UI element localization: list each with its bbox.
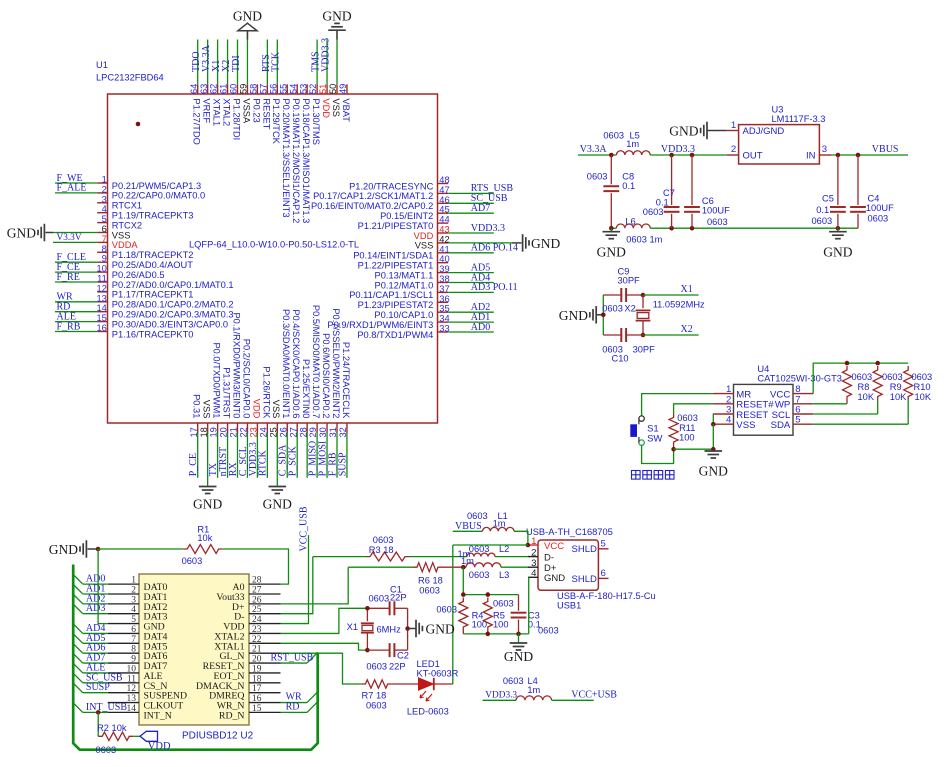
bus entry AD5 xyxy=(73,634,83,644)
resistor R1 xyxy=(183,545,223,554)
svg-text:P1.19/TRACEPKT3: P1.19/TRACEPKT3 xyxy=(112,211,194,221)
svg-text:0603: 0603 xyxy=(182,556,203,566)
svg-text:USB-A-F-180-H17.5-Cu: USB-A-F-180-H17.5-Cu xyxy=(557,591,656,601)
U2 pin 11 stub (CS_N) xyxy=(108,682,139,684)
ground GND at USB xyxy=(518,634,520,643)
node junction crystal GND tap xyxy=(405,626,410,631)
wire crystal X1 left rail xyxy=(366,608,368,621)
svg-text:30PF: 30PF xyxy=(618,275,641,285)
svg-text:V3.3A: V3.3A xyxy=(580,144,608,155)
wire net RD (U1 pin 14) xyxy=(55,311,97,313)
U1 pin 55 stub (P0.20/MAT1.3/SSEL1/EINT3) xyxy=(286,84,288,94)
svg-text:VDD3.3: VDD3.3 xyxy=(320,38,331,72)
U1 pin 27 stub (P0.4/SCK0/CAP0.1/AD0.6) xyxy=(296,423,298,433)
wire U2 XTAL2 pin 23 to crystal xyxy=(281,608,368,633)
svg-text:VSS: VSS xyxy=(271,400,281,419)
bus entry RST_USB xyxy=(307,652,318,663)
node junction C6 bottom xyxy=(690,226,695,231)
svg-text:40: 40 xyxy=(439,254,449,264)
svg-text:33: 33 xyxy=(439,324,449,334)
U2 pin 9 stub (DAT7) xyxy=(108,662,139,664)
wire net INT_USB (U2 pin 14) xyxy=(83,711,108,713)
svg-text:VSS: VSS xyxy=(112,230,131,240)
svg-text:RTCX2: RTCX2 xyxy=(112,220,142,230)
wire net AD5 (U2 pin 7) xyxy=(83,642,108,644)
svg-text:GND: GND xyxy=(597,245,626,260)
svg-text:0603: 0603 xyxy=(868,213,889,223)
svg-text:GND: GND xyxy=(7,226,36,241)
svg-text:VBUS: VBUS xyxy=(455,521,482,532)
ic U2 body PDIUSBD12 xyxy=(139,574,249,725)
resistor R8 xyxy=(843,366,852,401)
resistor R7 xyxy=(361,680,391,688)
svg-text:P0.11/CAP1.1/SCL1: P0.11/CAP1.1/SCL1 xyxy=(349,290,433,300)
USB1 pin 4 stub (GND) xyxy=(528,576,538,578)
U1 pin 6 stub (VSS) xyxy=(97,232,107,234)
wire U1 pin 32 xyxy=(346,433,348,478)
U4 pin 5 stub (SDA) xyxy=(793,423,813,425)
svg-text:P0.25/AD0.4/AOUT: P0.25/AD0.4/AOUT xyxy=(112,260,193,270)
svg-text:10K: 10K xyxy=(915,392,932,402)
wire net V3.3V (U1 pin 7 VDDA) xyxy=(53,241,97,243)
wire U1 pin 29 xyxy=(316,433,318,478)
U1 pin 2 stub (P0.22/CAP0.0/MAT0.0) xyxy=(97,192,107,194)
U2 pin 8 stub (DAT6) xyxy=(108,652,139,654)
node junction L3/R4 xyxy=(461,565,466,570)
svg-text:0603: 0603 xyxy=(602,304,623,314)
svg-text:59: 59 xyxy=(239,84,249,94)
svg-text:1: 1 xyxy=(131,576,136,586)
capacitor C1 xyxy=(389,601,391,615)
U2 pin 12 stub (SUSPEND) xyxy=(108,692,139,694)
wire R6 to L3 xyxy=(442,566,466,568)
svg-text:10: 10 xyxy=(127,664,137,674)
svg-text:P0.29/AD0.2/CAP0.3/MAT0.3: P0.29/AD0.2/CAP0.3/MAT0.3 xyxy=(112,310,234,320)
ground GND right of U3 xyxy=(837,228,839,231)
U1 pin 58 stub (P0.23) xyxy=(256,84,258,94)
U3 pin 1 stub xyxy=(727,130,739,132)
svg-text:SHLD: SHLD xyxy=(572,574,597,585)
svg-text:F_RE: F_RE xyxy=(57,272,80,283)
U1 pin 38 stub (P0.12/MAT1.0) xyxy=(438,282,449,284)
svg-text:TCK: TCK xyxy=(271,51,282,72)
node junction C5 bottom xyxy=(836,226,841,231)
wire net WR (U1 pin 13) xyxy=(55,301,97,303)
svg-text:0603: 0603 xyxy=(677,413,698,423)
svg-text:18: 18 xyxy=(252,674,262,684)
capacitor C8 xyxy=(610,155,612,184)
wire net RTS (U1 pin 57) xyxy=(266,40,268,85)
wire net RTS_USB (U1 pin 47) xyxy=(448,192,494,194)
svg-text:P0.8/TXD1/PWM4: P0.8/TXD1/PWM4 xyxy=(357,330,433,340)
node junction L6/GND xyxy=(609,226,614,231)
USB1 pin 5 stub (SHLD) xyxy=(598,548,608,550)
U1 pin 29 stub (P0.5/MISO0/MAT0.1/AD0.7) xyxy=(316,423,318,433)
svg-text:50: 50 xyxy=(328,84,338,94)
node junction R4 top xyxy=(461,592,466,597)
svg-text:R6 18: R6 18 xyxy=(418,576,443,586)
wire net F_RB (U1 pin 16) xyxy=(55,331,97,333)
svg-text:LED1: LED1 xyxy=(417,659,440,669)
U1 pin 46 stub (P0.16/EINT0/MAT0.2/CAP0.2) xyxy=(438,202,449,204)
U2 pin 17 stub (DMREQ) xyxy=(249,692,281,694)
svg-text:P0.5/MISO0/MAT0.1/AD0.7: P0.5/MISO0/MAT0.1/AD0.7 xyxy=(311,305,321,419)
wire U1 pin 28 xyxy=(306,433,308,478)
svg-text:7: 7 xyxy=(102,234,107,244)
bus entry AD3 xyxy=(73,604,83,614)
svg-text:AD6 PO.14: AD6 PO.14 xyxy=(471,243,518,254)
svg-text:6: 6 xyxy=(601,568,606,579)
wire U2 D- pin 25 to R3 line xyxy=(281,557,313,614)
U1 pin 53 stub (P0.18/CAP1.3/MISO1/MAT1.3) xyxy=(306,84,308,94)
U1 pin 50 stub (VSS) xyxy=(336,84,338,94)
svg-text:45: 45 xyxy=(439,205,449,215)
svg-text:KT-0603R: KT-0603R xyxy=(417,669,459,679)
wire net SUSP (U2 pin 12) xyxy=(83,692,108,694)
svg-text:0603: 0603 xyxy=(469,570,490,580)
U1 pin 17 stub (P0.31) xyxy=(197,423,199,433)
bus entry SC_USB xyxy=(73,673,83,683)
inductor L5 xyxy=(616,151,650,155)
wire L1 to USB VCC xyxy=(514,531,528,545)
U1 pin 47 stub (P0.17/CAP1.2/SCK1/MAT1.2) xyxy=(438,192,449,194)
inductor L2 xyxy=(467,553,495,557)
svg-text:OUT: OUT xyxy=(743,151,763,162)
wire U4 RESET to VSS xyxy=(712,414,714,424)
svg-text:AD0: AD0 xyxy=(471,322,490,333)
resistor R6 xyxy=(413,563,442,572)
U2 pin 6 stub (DAT4) xyxy=(108,632,139,634)
svg-text:SDA: SDA xyxy=(771,420,791,431)
svg-text:VSS: VSS xyxy=(202,400,212,419)
svg-text:RD: RD xyxy=(286,702,300,713)
svg-text:24: 24 xyxy=(252,615,262,625)
wire L3 node down to R4 rail xyxy=(462,567,464,594)
ground GND near R1 xyxy=(79,546,81,552)
svg-text:P0.18/CAP1.3/MISO1/MAT1.3: P0.18/CAP1.3/MISO1/MAT1.3 xyxy=(301,98,311,223)
svg-text:GND: GND xyxy=(544,573,565,584)
U1 pin 23 stub (VDD) xyxy=(256,423,258,433)
svg-text:P_SCK: P_SCK xyxy=(288,446,299,477)
USB1 pin 3 stub (D+) xyxy=(528,566,538,568)
node junction X1 xyxy=(641,293,646,298)
svg-text:26: 26 xyxy=(252,595,262,605)
U1 pin 14 stub (P0.29/AD0.2/CAP0.3/MAT0.3) xyxy=(97,311,107,313)
wire U1 pin 22 xyxy=(246,433,248,478)
svg-text:11: 11 xyxy=(127,674,136,684)
wire U3 ground rail xyxy=(611,227,616,229)
svg-text:P1.31/TRST: P1.31/TRST xyxy=(221,367,231,418)
svg-text:XTAL1: XTAL1 xyxy=(212,98,222,126)
U1 pin 35 stub (P0.10/CAP1.0) xyxy=(438,311,449,313)
node junction R5 top xyxy=(486,592,491,597)
svg-text:53: 53 xyxy=(298,84,308,94)
bus entry AD0 xyxy=(73,575,83,585)
svg-text:LED-0603: LED-0603 xyxy=(407,707,449,717)
U2 pin 22 stub (XTAL1) xyxy=(249,642,281,644)
U2 pin 18 stub (DMACK_N) xyxy=(249,682,281,684)
wire USB GND pin 4 drop xyxy=(528,577,530,634)
svg-text:5: 5 xyxy=(131,615,136,625)
svg-text:P0.13/MAT1.1: P0.13/MAT1.1 xyxy=(375,270,434,280)
ground GND (U1 pin 6 VSS) xyxy=(53,232,97,234)
wire net AD1 (U1 pin 34) xyxy=(448,321,494,323)
wire crystal left rail xyxy=(602,295,604,335)
U1 pin 51 stub (VDD) xyxy=(326,84,328,94)
svg-text:P0.16/EINT0/MAT0.2/CAP0.2: P0.16/EINT0/MAT0.2/CAP0.2 xyxy=(311,201,433,211)
svg-text:0603: 0603 xyxy=(852,372,873,382)
svg-text:GND: GND xyxy=(193,496,222,511)
ic U4 body CAT1025WI-30-GT3 xyxy=(734,384,794,435)
svg-text:1: 1 xyxy=(531,536,536,547)
wire net F_CE (U1 pin 10) xyxy=(55,271,97,273)
node junction C7 top xyxy=(669,153,674,158)
svg-text:F_RB: F_RB xyxy=(57,321,81,332)
bus entry INT_USB xyxy=(73,703,83,713)
ground GND at U4 xyxy=(705,450,723,452)
USB1 pin 2 stub (D-) xyxy=(528,556,538,558)
U1 pin 21 stub (P0.1/RXD0/PWM3/EINT0) xyxy=(237,423,239,433)
U1 pin 31 stub (P0.7/SSEL0/PWM2/EINT2) xyxy=(336,423,338,433)
svg-text:14: 14 xyxy=(96,303,106,313)
capacitor C6 xyxy=(691,155,693,205)
wire net TDO (U1 pin 64) xyxy=(197,40,199,85)
U1 pin 10 stub (P0.26/AD0.5) xyxy=(97,271,107,273)
U1 pin 63 stub (VREF) xyxy=(207,84,209,94)
U1 pin 49 stub (VBAT) xyxy=(346,84,348,94)
U1 pin 48 stub (P1.20/TRACESYNC) xyxy=(438,183,449,185)
U2 pin 1 stub (DAT0) xyxy=(108,583,139,585)
svg-text:35: 35 xyxy=(439,304,449,314)
connector USB1 body USB-A-F-180-H17.5-Cu xyxy=(538,540,598,590)
inductor L1 xyxy=(483,527,515,531)
wire net AD5 (U1 pin 39) xyxy=(448,272,494,274)
svg-text:25: 25 xyxy=(252,605,262,615)
svg-text:GND: GND xyxy=(233,8,262,23)
svg-text:2: 2 xyxy=(531,547,536,558)
svg-text:VBAT: VBAT xyxy=(341,98,351,122)
svg-text:5: 5 xyxy=(601,538,606,549)
wire net AD0 (U2 pin 1) xyxy=(83,583,108,585)
svg-text:X1: X1 xyxy=(347,622,358,632)
led LED1 KT-0603R xyxy=(419,678,434,690)
wire net TCK (U1 pin 56) xyxy=(276,40,278,85)
wire U1 pin 24 xyxy=(266,433,268,478)
svg-text:VCC: VCC xyxy=(544,541,564,552)
svg-text:0603: 0603 xyxy=(369,594,390,604)
capacitor C10 xyxy=(603,334,621,336)
svg-text:VSS: VSS xyxy=(331,98,341,117)
U2 pin 21 stub (GL_N) xyxy=(249,652,281,654)
wire U4 VCC to pull-up rail xyxy=(813,363,908,394)
resistor R11 xyxy=(669,414,678,446)
node junction USB VCC xyxy=(526,543,531,548)
wire R2 to VDD flag xyxy=(133,735,140,737)
U1 pin 19 stub (P0.0/TXD0/PWM1) xyxy=(217,423,219,433)
U2 pin 24 stub (VDD) xyxy=(249,623,281,625)
crystal X2 11.0592MHz xyxy=(642,295,644,308)
svg-text:P1.30/TMS: P1.30/TMS xyxy=(311,98,321,145)
U1 pin 20 stub (P1.31/TRST) xyxy=(227,423,229,433)
U1 pin 52 stub (P1.30/TMS) xyxy=(316,84,318,94)
wire net AD4 (U2 pin 6) xyxy=(83,632,108,634)
svg-text:X2: X2 xyxy=(681,324,693,335)
svg-text:15: 15 xyxy=(252,704,262,714)
wire net AD2 (U2 pin 3) xyxy=(83,603,108,605)
U1 pin 40 stub (P1.22/PIPESTAT1) xyxy=(438,262,449,264)
bus entry AD1 xyxy=(73,584,83,594)
svg-text:P1.22/PIPESTAT1: P1.22/PIPESTAT1 xyxy=(358,261,434,271)
svg-text:1: 1 xyxy=(102,175,107,185)
svg-text:P0.23: P0.23 xyxy=(251,98,261,122)
node junction V3.3A/C8 xyxy=(609,153,614,158)
wire U1 pin 20 xyxy=(227,433,229,478)
svg-text:44: 44 xyxy=(439,215,449,225)
svg-text:4: 4 xyxy=(131,605,136,615)
svg-text:5: 5 xyxy=(795,415,800,426)
svg-text:VSS: VSS xyxy=(736,420,755,431)
svg-text:USB1: USB1 xyxy=(557,601,581,611)
node junction C6 top xyxy=(690,153,695,158)
bus entry ALE xyxy=(73,663,83,673)
U2 pin 15 stub (RD_N) xyxy=(249,711,281,713)
svg-text:10k: 10k xyxy=(197,533,212,543)
node junction X2 xyxy=(641,333,646,338)
U1 pin 22 stub (P0.2/SCL0/CAP0.0) xyxy=(246,423,248,433)
U4 pin 7 stub (WP) xyxy=(793,403,813,405)
svg-text:GND: GND xyxy=(559,308,588,323)
U2 pin 25 stub (D-) xyxy=(249,613,281,615)
U1 pin 64 stub (P1.27/TDO) xyxy=(197,84,199,94)
wire U2 XTAL1 pin 22 to crystal xyxy=(281,643,368,650)
wire U1 pin 18 VSS to ground xyxy=(207,433,209,486)
wire INT_USB to R2 xyxy=(97,712,99,736)
svg-text:52: 52 xyxy=(308,84,318,94)
node junction R5 bottom xyxy=(486,632,491,637)
svg-text:P0.2/SCL0/CAP0.0: P0.2/SCL0/CAP0.0 xyxy=(241,339,251,419)
node junction GND/R1/pin5 xyxy=(96,547,101,552)
wire net AD0 (U1 pin 33) xyxy=(448,331,494,333)
U1 pin 60 stub (P1.28/TDI) xyxy=(237,84,239,94)
svg-text:0603: 0603 xyxy=(467,511,488,521)
svg-text:P0.30/AD0.3/EINT3/CAP0.0: P0.30/AD0.3/EINT3/CAP0.0 xyxy=(112,319,228,329)
wire net AD7 (U1 pin 45) xyxy=(448,212,494,214)
svg-text:R8: R8 xyxy=(858,382,870,392)
U2 pin 4 stub (DAT3) xyxy=(108,613,139,615)
svg-text:GND: GND xyxy=(504,649,533,664)
svg-text:LM1117F-3.3: LM1117F-3.3 xyxy=(772,114,826,124)
svg-text:20: 20 xyxy=(252,655,262,665)
svg-text:6: 6 xyxy=(131,625,136,635)
USB1 pin 1 stub (VCC) xyxy=(528,544,538,546)
svg-text:21: 21 xyxy=(252,645,262,655)
svg-text:0603 1m: 0603 1m xyxy=(626,235,662,245)
svg-text:1m: 1m xyxy=(626,139,639,149)
bus entry RD xyxy=(307,702,318,713)
svg-text:P1.26/RTCK: P1.26/RTCK xyxy=(261,366,271,419)
svg-text:0603: 0603 xyxy=(419,586,440,596)
svg-text:R7 18: R7 18 xyxy=(362,691,387,701)
wire net AD3 PO.11 (U1 pin 37) xyxy=(448,291,494,293)
U1 pin 32 stub (P1.24/TRACECLK) xyxy=(346,423,348,433)
U1 pin 54 stub (P0.19/MAT1.2/MOSI1/CAP1.2) xyxy=(296,84,298,94)
svg-text:41: 41 xyxy=(439,244,449,254)
svg-text:0603: 0603 xyxy=(538,626,559,636)
U2 pin 26 stub (D+) xyxy=(249,603,281,605)
wire U1 pin 23 xyxy=(256,433,258,478)
U1 pin 1 stub (P0.21/PWM5/CAP1.3) xyxy=(97,182,107,184)
svg-text:100UF: 100UF xyxy=(866,203,894,213)
wire crystal X1 bottom rail xyxy=(367,649,389,651)
wire net AD1 (U2 pin 2) xyxy=(83,593,108,595)
svg-text:P0.21/PWM5/CAP1.3: P0.21/PWM5/CAP1.3 xyxy=(112,181,201,191)
U1 pin 59 stub (VSSA) xyxy=(246,84,248,94)
wire U1 pin 30 xyxy=(326,433,328,478)
node junction U4 VSS xyxy=(711,422,716,427)
node junction C7 bottom xyxy=(669,226,674,231)
wire R7 to LED xyxy=(392,683,418,685)
svg-text:P1.23/PIPESTAT2: P1.23/PIPESTAT2 xyxy=(358,300,434,310)
wire GND junction to R1 xyxy=(98,548,183,550)
wire LED anode riser xyxy=(452,545,454,684)
svg-text:0603: 0603 xyxy=(912,372,933,382)
svg-text:48: 48 xyxy=(439,175,449,185)
capacitor C9 xyxy=(603,294,621,296)
svg-text:6: 6 xyxy=(102,224,107,234)
node junction crystal top-left xyxy=(365,606,370,611)
svg-text:19: 19 xyxy=(252,664,262,674)
node junction C4 top xyxy=(856,153,861,158)
resistor R10 xyxy=(904,366,913,401)
svg-text:P0.28/AD0.1/CAP0.2/MAT0.2: P0.28/AD0.1/CAP0.2/MAT0.2 xyxy=(112,300,234,310)
U2 pin 19 stub (EOT_N) xyxy=(249,672,281,674)
svg-text:VSSA: VSSA xyxy=(241,98,251,124)
U2 pin 28 stub (A0) xyxy=(249,583,281,585)
U1 pin 25 stub (VSS) xyxy=(276,423,278,433)
svg-text:57: 57 xyxy=(258,84,268,94)
wire R4/R5/C3 bottom rail xyxy=(463,633,528,635)
svg-text:U4: U4 xyxy=(757,364,769,374)
svg-text:17: 17 xyxy=(252,684,262,694)
svg-text:C2: C2 xyxy=(397,651,409,661)
wire net F_CLE (U1 pin 9) xyxy=(55,261,97,263)
svg-text:13: 13 xyxy=(96,293,106,303)
bus entry AD6 xyxy=(73,644,83,654)
svg-text:0.1: 0.1 xyxy=(816,205,829,215)
regulator U3 body LM1117F-3.3 xyxy=(739,125,820,164)
wire switch bottom loop xyxy=(642,445,674,463)
wire net V3.3A to L5 xyxy=(578,154,616,156)
svg-text:30PF: 30PF xyxy=(633,345,656,355)
wire LED cathode to riser xyxy=(434,683,453,685)
svg-text:0603: 0603 xyxy=(493,599,514,609)
inductor L4 xyxy=(516,696,552,700)
node junction ground rail xyxy=(711,447,716,452)
svg-text:ADJ/GND: ADJ/GND xyxy=(743,126,785,137)
svg-text:49: 49 xyxy=(338,84,348,94)
svg-text:C8: C8 xyxy=(622,172,634,182)
svg-text:SUSP: SUSP xyxy=(337,452,348,476)
svg-text:P1.24/TRACECLK: P1.24/TRACECLK xyxy=(341,342,351,419)
svg-text:9: 9 xyxy=(131,655,136,665)
U1 pin 28 stub (P1.25/EXTIN0) xyxy=(306,423,308,433)
svg-text:C10: C10 xyxy=(612,354,629,364)
U2 pin 14 stub (INT_N) xyxy=(108,711,139,713)
svg-text:L6: L6 xyxy=(625,217,635,227)
svg-text:10K: 10K xyxy=(890,392,907,402)
wire R4/R5/C3 top rail xyxy=(463,594,518,596)
svg-text:R3 18: R3 18 xyxy=(369,545,394,555)
